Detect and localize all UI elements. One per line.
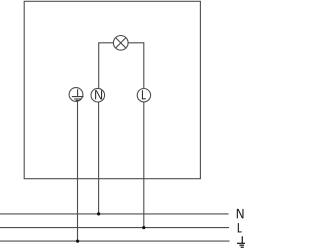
terminal L circle — [137, 89, 150, 102]
wire N down — [98, 102, 100, 214]
wire L down — [143, 102, 145, 228]
terminal L letter — [142, 90, 146, 99]
terminal N circle — [91, 88, 105, 102]
net line L — [0, 227, 229, 229]
wire lamp right to L terminal — [128, 43, 144, 88]
wire PE down — [77, 101, 79, 241]
label N — [237, 209, 244, 218]
terminal PE circle — [69, 88, 83, 102]
junction dot PE — [76, 240, 79, 243]
earth symbol label — [237, 236, 245, 247]
terminal PE earth mark — [72, 89, 84, 100]
terminal N letter — [95, 90, 102, 99]
wire lamp left to N terminal — [99, 43, 114, 88]
junction dot N — [97, 212, 100, 215]
lamp E1 — [113, 36, 128, 51]
net line N — [0, 213, 229, 215]
net line PE — [0, 240, 230, 242]
label L — [238, 223, 242, 232]
junction dot L — [142, 226, 145, 229]
enclosure box — [24, 1, 200, 178]
